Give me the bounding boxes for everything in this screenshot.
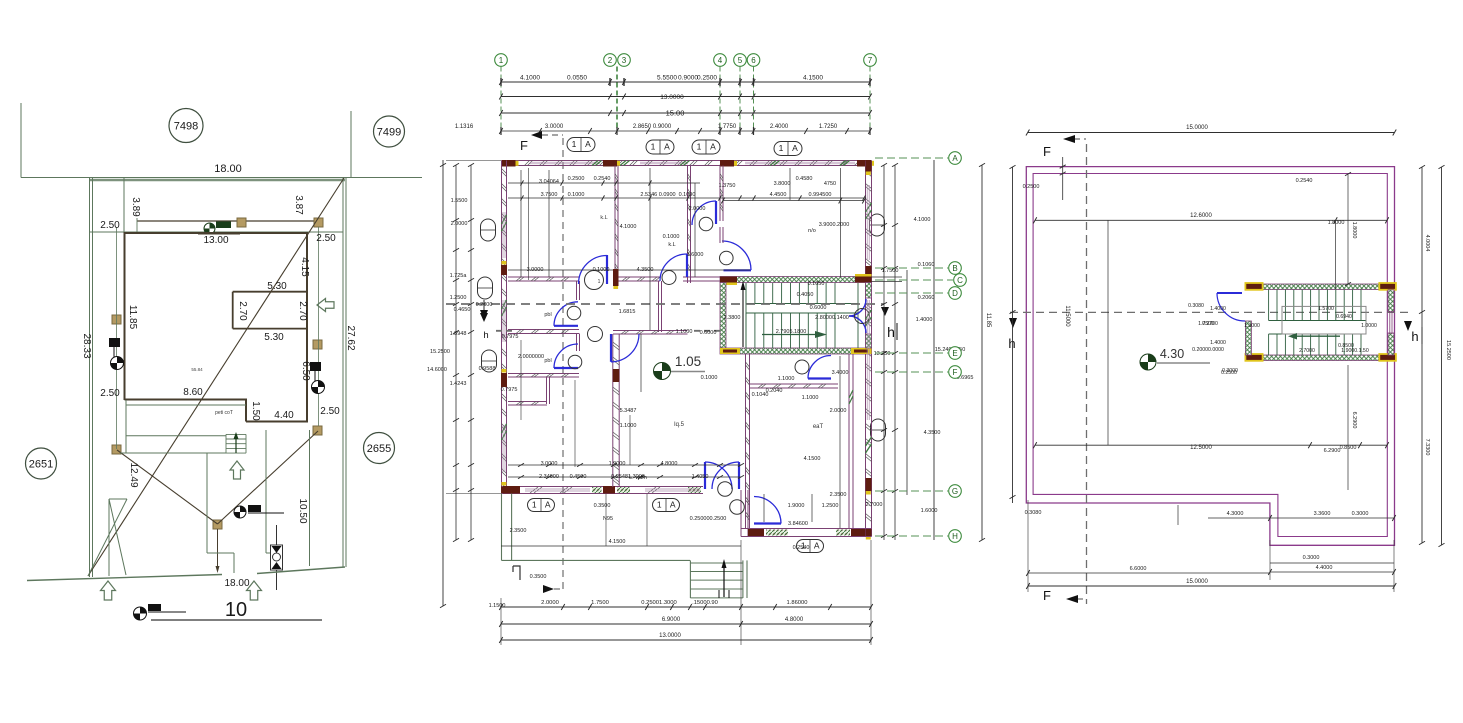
- svg-text:0.4650: 0.4650: [454, 307, 471, 313]
- entrance stair arrow: [723, 566, 725, 597]
- svg-text:B: B: [952, 264, 957, 273]
- plot number circle 7498: [169, 109, 203, 143]
- terrace stair: bottom wall: [1263, 355, 1380, 361]
- bathroom door under stair (blue): [808, 377, 831, 379]
- svg-text:15.0000: 15.0000: [1186, 125, 1208, 131]
- svg-text:8.60: 8.60: [183, 387, 203, 398]
- svg-text:6.9000: 6.9000: [662, 617, 681, 623]
- top wall window lines: [530, 161, 600, 163]
- benchmark symbol top: [204, 223, 215, 234]
- svg-text:1.9000: 1.9000: [609, 461, 626, 467]
- stair up arrow (black): [742, 288, 744, 347]
- right column tie line: [318, 227, 320, 426]
- level marker 1.05: [654, 363, 671, 380]
- terrace inner wall: [1033, 174, 1387, 537]
- interior dim lines: [508, 182, 700, 184]
- site plan: top plot boundary line: [21, 177, 422, 179]
- svg-text:1: 1: [572, 139, 577, 149]
- svg-text:0.1000: 0.1000: [701, 375, 718, 381]
- site compound wall left (double line): [89, 178, 91, 578]
- benchmark right-mid: circle: [312, 381, 325, 394]
- svg-text:1.05: 1.05: [675, 354, 701, 369]
- svg-text:0.9588: 0.9588: [479, 366, 496, 372]
- valve symbol: [276, 525, 278, 590]
- maroon block bottom of wall x616: [613, 269, 619, 286]
- svg-text:1.9000: 1.9000: [788, 503, 805, 509]
- svg-text:1.1500: 1.1500: [489, 603, 506, 609]
- svg-text:0.2500: 0.2500: [1221, 370, 1237, 376]
- hollow arrow on road center: [247, 581, 262, 600]
- building outline: right wall: [306, 233, 308, 422]
- interior wall vertical x689: [687, 166, 689, 284]
- dim line 4.4500 row: [723, 200, 864, 202]
- svg-text:A: A: [814, 541, 820, 551]
- entrance stairs bottom: [690, 560, 747, 598]
- svg-text:6: 6: [751, 56, 756, 65]
- wall stub below grid4 door: [719, 227, 721, 243]
- svg-text:0.2540: 0.2540: [1296, 178, 1313, 184]
- svg-text:0.6000: 0.6000: [700, 330, 717, 336]
- svg-text:1.7250: 1.7250: [819, 124, 838, 130]
- svg-text:4.1500: 4.1500: [803, 75, 823, 82]
- svg-text:0.6000: 0.6000: [810, 305, 827, 311]
- svg-text:0.6940: 0.6940: [1336, 314, 1352, 320]
- building outline: bottom-left wall: [125, 399, 248, 401]
- svg-text:2.7000: 2.7000: [1299, 348, 1315, 354]
- svg-text:5.30: 5.30: [264, 332, 284, 343]
- svg-text:F: F: [520, 138, 528, 153]
- bottom step wall vertical: [740, 490, 742, 537]
- benchmark left-mid: black plate: [109, 338, 120, 347]
- svg-text:1.5500: 1.5500: [451, 198, 468, 204]
- center wall y332: [613, 330, 688, 332]
- svg-text:0.0550: 0.0550: [567, 75, 587, 82]
- terrace stair: top wall: [1263, 284, 1380, 290]
- svg-text:3.7500: 3.7500: [541, 192, 558, 198]
- section ovals 1A top: [567, 138, 595, 152]
- terrace stair door (blue): [1217, 292, 1242, 294]
- svg-text:27.62: 27.62: [345, 325, 356, 350]
- right exterior wall: [865, 161, 867, 537]
- site setback line left: [123, 178, 125, 234]
- svg-text:eaT: eaT: [813, 424, 824, 430]
- building outline: top wall: [124, 232, 309, 234]
- benchmark near scale: [134, 607, 147, 620]
- svg-text:1: 1: [598, 279, 601, 285]
- svg-text:h: h: [887, 324, 895, 340]
- fixture ovals right wall: [870, 214, 885, 236]
- svg-text:0.25001.3000: 0.25001.3000: [641, 600, 676, 606]
- svg-text:1.1316: 1.1316: [455, 124, 474, 130]
- svg-text:18.00: 18.00: [214, 163, 242, 175]
- svg-text:4.15: 4.15: [299, 257, 310, 277]
- terrace dimension lines: [1028, 132, 1395, 134]
- svg-text:3.3600: 3.3600: [1314, 511, 1331, 517]
- svg-text:11.85: 11.85: [127, 305, 138, 330]
- tan column left-mid: [112, 315, 121, 324]
- svg-text:4.40: 4.40: [274, 410, 294, 421]
- svg-text:1: 1: [779, 143, 784, 153]
- svg-text:2.8650 0.9000: 2.8650 0.9000: [633, 124, 672, 130]
- svg-text:0.1090: 0.1090: [679, 192, 696, 198]
- svg-text:13.00: 13.00: [203, 235, 228, 246]
- svg-text:15.2500: 15.2500: [1445, 340, 1451, 360]
- terrace stair: right wall hatch segments: [1388, 290, 1394, 312]
- svg-text:k.L: k.L: [600, 215, 607, 221]
- svg-text:0.2060: 0.2060: [918, 295, 935, 301]
- terrace left dim column: [1012, 167, 1014, 503]
- courtyard line y=453: [120, 452, 226, 454]
- svg-text:G: G: [952, 487, 958, 496]
- site plan: top-left boundary stub: [20, 103, 22, 178]
- left bath door 1 (blue): [554, 325, 578, 327]
- svg-text:0.2540: 0.2540: [594, 176, 611, 182]
- svg-text:4.1000: 4.1000: [520, 75, 540, 82]
- building outline: left wall: [124, 233, 126, 400]
- inner room 5.30 x 2.70: top line: [233, 291, 306, 293]
- grid dashed leader lines: [500, 67, 502, 132]
- svg-text:6.50: 6.50: [300, 361, 311, 381]
- svg-text:1.1000: 1.1000: [676, 329, 693, 335]
- svg-text:2.3500: 2.3500: [510, 528, 527, 534]
- svg-text:3.87: 3.87: [293, 195, 304, 215]
- svg-text:pbl: pbl: [544, 312, 551, 318]
- svg-text:2.0000000: 2.0000000: [518, 354, 544, 360]
- diagonal from left column to center column: [117, 450, 218, 524]
- svg-text:F: F: [1043, 144, 1051, 159]
- svg-text:12.6000: 12.6000: [1190, 213, 1212, 219]
- svg-text:1.0000: 1.0000: [1361, 323, 1377, 329]
- hollow up arrow below site stairs: [230, 461, 244, 479]
- svg-text:2.0000: 2.0000: [451, 221, 468, 227]
- terrace outer wall: [1026, 167, 1394, 546]
- svg-text:4.30: 4.30: [1160, 347, 1184, 361]
- svg-text:0.250000.2500: 0.250000.2500: [690, 516, 727, 522]
- terrace stair treads: [1269, 290, 1366, 356]
- svg-text:Iq.5: Iq.5: [674, 422, 685, 428]
- bathroom under stair wall y386: [750, 383, 838, 385]
- svg-text:1: 1: [532, 500, 537, 510]
- green hatches on top wall: [592, 161, 602, 166]
- benchmark right-mid: black plate: [310, 362, 321, 371]
- svg-text:2.50: 2.50: [100, 388, 120, 399]
- inner room: left line: [232, 292, 234, 329]
- svg-text:1.7750: 1.7750: [718, 124, 737, 130]
- svg-text:h: h: [1411, 329, 1418, 344]
- left small rooms: wall y375: [508, 373, 579, 375]
- svg-text:2.70: 2.70: [237, 301, 248, 321]
- svg-text:3.8000: 3.8000: [774, 181, 791, 187]
- terrace stair: left wall: [1245, 321, 1251, 355]
- left wall green hatch: [502, 215, 507, 231]
- svg-text:7499: 7499: [377, 127, 401, 139]
- svg-text:4: 4: [718, 56, 723, 65]
- big center door (blue): [610, 334, 612, 362]
- diagonal from center column to right column: [218, 431, 319, 524]
- dimension row 4: [501, 130, 870, 132]
- section line h horizontal (dashed): [1010, 311, 1409, 313]
- svg-text:4.3500: 4.3500: [924, 430, 941, 436]
- svg-text:2: 2: [608, 56, 613, 65]
- grid cross ticks on dim rows: [500, 78, 502, 86]
- svg-text:4.1000: 4.1000: [620, 224, 637, 230]
- svg-text:28.33: 28.33: [81, 333, 92, 358]
- svg-text:0.25481.3000: 0.25481.3000: [611, 474, 645, 480]
- svg-text:3.0000: 3.0000: [527, 267, 544, 273]
- top-center door at grid4 (blue): [715, 201, 717, 224]
- svg-text:6.2900: 6.2900: [1324, 448, 1341, 454]
- left bath door 2 (blue): [554, 367, 578, 369]
- svg-text:1.6000: 1.6000: [921, 508, 938, 514]
- svg-text:3.89: 3.89: [130, 197, 141, 217]
- right lane vertical 2: [309, 430, 311, 566]
- svg-text:0.1040: 0.1040: [752, 392, 769, 398]
- svg-text:2.0000: 2.0000: [541, 600, 559, 606]
- svg-text:0.994500: 0.994500: [809, 192, 832, 198]
- svg-text:3: 3: [622, 56, 627, 65]
- svg-text:0.2540: 0.2540: [793, 545, 810, 551]
- svg-text:H: H: [952, 532, 958, 541]
- bottom double door (blue): [704, 462, 706, 489]
- svg-text:0.1000: 0.1000: [568, 192, 585, 198]
- svg-text:A: A: [952, 154, 958, 163]
- building outline: step wall: [245, 400, 247, 422]
- ticks on interior dim rows: [521, 195, 524, 200]
- svg-text:2.0000: 2.0000: [689, 206, 706, 212]
- right wall maroon columns: [866, 161, 872, 172]
- building outline: bottom-right wall: [246, 421, 308, 423]
- svg-text:4.1000: 4.1000: [914, 217, 931, 223]
- svg-text:0.4050: 0.4050: [797, 292, 814, 298]
- site plan: boundary stub near plot 7499: [350, 111, 352, 177]
- svg-text:18.00: 18.00: [224, 578, 249, 589]
- svg-text:0.4580: 0.4580: [796, 176, 813, 182]
- extra interior dim verticals: [520, 340, 522, 420]
- svg-text:2.3500: 2.3500: [830, 492, 847, 498]
- benchmark bottom center: [234, 506, 246, 518]
- svg-text:3.0000: 3.0000: [541, 461, 558, 467]
- svg-text:2.80000.1400: 2.80000.1400: [815, 315, 849, 321]
- right lane bottom: [266, 552, 280, 554]
- section line F vertical (dashed): [1086, 144, 1088, 604]
- svg-text:0.3500: 0.3500: [594, 503, 611, 509]
- svg-text:5.3487: 5.3487: [620, 408, 637, 414]
- interior horizontal wall y279 left room: [508, 276, 579, 278]
- svg-text:1: 1: [499, 56, 504, 65]
- svg-text:1.7500: 1.7500: [591, 600, 609, 606]
- svg-text:5: 5: [738, 56, 743, 65]
- right wall green hatch: [866, 203, 872, 219]
- site compound wall right (double line): [342, 178, 344, 568]
- svg-text:1.4000: 1.4000: [916, 317, 933, 323]
- svg-text:1.3000: 1.3000: [1244, 323, 1260, 329]
- plumb line below center column: [217, 529, 219, 566]
- svg-text:2.70: 2.70: [297, 301, 308, 321]
- tan column square top-left: [237, 218, 246, 227]
- svg-text:2.0000: 2.0000: [830, 408, 847, 414]
- svg-text:0.3080: 0.3080: [1025, 510, 1042, 516]
- top exterior wall: [502, 160, 872, 162]
- svg-text:A: A: [792, 143, 798, 153]
- left wall window lines: [502, 212, 504, 258]
- svg-text:4.0004: 4.0004: [1424, 235, 1430, 252]
- svg-text:A: A: [670, 500, 676, 510]
- svg-text:1.8948: 1.8948: [450, 331, 467, 337]
- svg-text:10.50: 10.50: [297, 498, 308, 523]
- svg-text:D: D: [952, 289, 958, 298]
- svg-text:1.1000: 1.1000: [802, 395, 819, 401]
- svg-text:0.1060: 0.1060: [918, 262, 935, 268]
- svg-text:1.3750: 1.3750: [719, 183, 736, 189]
- inner room: bottom line: [233, 328, 306, 330]
- svg-text:3.84600: 3.84600: [788, 521, 808, 527]
- left column tie line: [116, 227, 118, 449]
- svg-text:0.3000: 0.3000: [1303, 555, 1320, 561]
- svg-text:4.3500: 4.3500: [637, 267, 654, 273]
- extension line top wall to left dims: [446, 160, 501, 162]
- svg-text:1.86000: 1.86000: [787, 600, 808, 606]
- svg-text:2651: 2651: [29, 459, 53, 471]
- svg-text:4.4000: 4.4000: [1316, 565, 1333, 571]
- benchmark left-mid: circle: [111, 357, 124, 370]
- svg-text:1.6815: 1.6815: [619, 309, 636, 315]
- stair left wall (crosshatch): [720, 283, 726, 349]
- svg-text:1.4050: 1.4050: [692, 474, 709, 480]
- svg-text:7498: 7498: [174, 121, 198, 133]
- svg-text:1: 1: [651, 142, 656, 152]
- scale underline: [151, 619, 322, 621]
- maroon block on center divider: [613, 369, 619, 382]
- section line h (dashed): [446, 303, 884, 305]
- svg-text:1.1000: 1.1000: [778, 376, 795, 382]
- svg-text:4.4500: 4.4500: [770, 192, 787, 198]
- svg-text:6.2900: 6.2900: [1351, 412, 1357, 429]
- svg-text:A: A: [545, 500, 551, 510]
- plot number circle 7499: [374, 116, 405, 147]
- svg-text:5.30: 5.30: [267, 281, 287, 292]
- svg-text:C: C: [957, 276, 963, 285]
- svg-text:0.1000: 0.1000: [593, 267, 610, 273]
- door right of hall (blue): [724, 269, 752, 271]
- interior wall vertical x616: [614, 166, 616, 282]
- svg-text:pbl: pbl: [544, 358, 551, 364]
- svg-text:E: E: [952, 349, 957, 358]
- section ovals 1A bottom: [528, 499, 555, 512]
- svg-text:A: A: [585, 139, 591, 149]
- svg-text:n/o: n/o: [808, 228, 816, 234]
- svg-text:0.7975: 0.7975: [501, 387, 518, 393]
- tan column right-mid: [313, 340, 322, 349]
- tan column left-low: [112, 445, 121, 454]
- dimension row 3: [501, 112, 870, 114]
- svg-text:h: h: [483, 330, 488, 341]
- svg-text:0.3000: 0.3000: [1352, 511, 1369, 517]
- svg-text:0.1050: 0.1050: [808, 281, 825, 287]
- svg-text:k.L: k.L: [668, 242, 675, 248]
- hollow arrow on road left: [101, 581, 116, 600]
- svg-text:55.84: 55.84: [191, 367, 203, 372]
- left wall maroon columns: [501, 265, 507, 275]
- tan column right-low: [313, 426, 322, 435]
- courtyard vertical x=207: [206, 453, 208, 553]
- svg-text:0.9000: 0.9000: [678, 75, 698, 82]
- svg-text:1: 1: [657, 500, 662, 510]
- svg-text:3.04064: 3.04064: [539, 179, 559, 185]
- svg-text:1.50: 1.50: [250, 401, 261, 421]
- svg-text:0.3080: 0.3080: [1188, 303, 1204, 309]
- right lane vertical 1: [265, 430, 267, 553]
- bottom-right door (blue): [754, 522, 781, 524]
- svg-text:13.250: 13.250: [874, 351, 891, 357]
- porch line horizontal: [126, 435, 226, 437]
- svg-text:4.3000: 4.3000: [1227, 511, 1244, 517]
- svg-text:1.2500: 1.2500: [450, 295, 467, 301]
- svg-text:0.8500: 0.8500: [1338, 343, 1354, 349]
- interior wall vertical x721 top: [719, 166, 721, 222]
- svg-text:2.50: 2.50: [100, 220, 120, 231]
- svg-text:1.7500: 1.7500: [882, 268, 899, 274]
- svg-text:11.85: 11.85: [985, 313, 991, 328]
- svg-text:0.20000.0000: 0.20000.0000: [1192, 347, 1224, 353]
- svg-text:4.8000: 4.8000: [785, 617, 804, 623]
- svg-text:2655: 2655: [367, 443, 391, 455]
- svg-text:10: 10: [225, 599, 247, 621]
- stair double door right (blue): [849, 299, 866, 316]
- left exterior wall: [501, 161, 503, 494]
- grid bubbles 1-7: [495, 54, 508, 67]
- svg-text:0.2500: 0.2500: [697, 75, 717, 82]
- svg-text:A: A: [664, 142, 670, 152]
- door to left room on wall y279 (blue): [606, 255, 608, 284]
- svg-text:11.5000: 11.5000: [1064, 305, 1070, 327]
- svg-text:1.4000: 1.4000: [1210, 306, 1226, 312]
- svg-text:3.9000.2000: 3.9000.2000: [819, 222, 850, 228]
- stair wall extension dims right: [872, 276, 903, 278]
- door on wall y279 (blue): [660, 254, 687, 281]
- svg-text:4.1500: 4.1500: [804, 456, 821, 462]
- stair treads upper flight: [746, 283, 858, 348]
- stair right wall segments: [866, 283, 872, 299]
- interior wall vertical x660 hall: [658, 281, 660, 332]
- courtyard line y=553: [207, 552, 234, 554]
- terrace inner vertical dim: [1107, 220, 1109, 445]
- svg-text:F: F: [1043, 588, 1051, 603]
- svg-text:2.50: 2.50: [320, 406, 340, 417]
- right wall window lines: [866, 185, 868, 260]
- plot number circle 2651: [26, 448, 57, 479]
- main diagonal sight line: [88, 178, 344, 576]
- 0.2500 dim vertical top-left terrace: [1062, 157, 1064, 200]
- svg-text:12.5000: 12.5000: [1190, 445, 1212, 451]
- letter bubbles A-H: [875, 157, 948, 159]
- bottom-right exterior wall: [741, 528, 872, 530]
- porch line vertical: [125, 400, 127, 453]
- svg-text:1.4000: 1.4000: [1210, 340, 1226, 346]
- svg-text:2.50: 2.50: [316, 233, 336, 244]
- bottom-left exterior wall: [502, 486, 704, 488]
- svg-text:14.6000: 14.6000: [427, 367, 447, 373]
- terrace bottom notch dims: [1177, 505, 1179, 525]
- plot number circle 2655: [364, 433, 395, 464]
- small closet walls left column: [546, 377, 548, 404]
- top wall maroon columns: [502, 160, 516, 167]
- right dimension columns: [883, 165, 885, 540]
- svg-text:1.725a: 1.725a: [450, 273, 468, 279]
- svg-text:1.8000: 1.8000: [1328, 220, 1345, 226]
- svg-text:2.7000: 2.7000: [866, 502, 883, 508]
- svg-text:2.5346 0.0900: 2.5346 0.0900: [640, 192, 675, 198]
- level marker 4.30: [1140, 354, 1156, 370]
